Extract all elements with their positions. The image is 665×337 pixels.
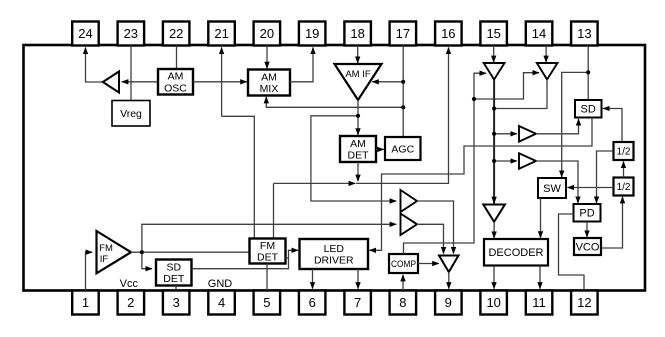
wire PD to VCO <box>586 222 588 238</box>
wire riser to amp A7 input <box>494 133 517 135</box>
amp A8 (points right) <box>519 153 536 169</box>
pin 16 <box>435 22 462 46</box>
block FM DET <box>250 239 286 264</box>
svg-text:MIX: MIX <box>260 83 279 95</box>
svg-text:SD: SD <box>581 104 596 116</box>
node AM IF tip branch junction <box>356 114 360 118</box>
wire amp A2 out to mute amp <box>417 201 454 254</box>
wire DECODER to pin 11 <box>539 266 541 289</box>
block Vreg <box>112 101 150 127</box>
wire pin 17 riser to AGC top <box>402 46 404 138</box>
svg-text:14: 14 <box>532 26 546 41</box>
wire mute amp to pin 9 <box>448 272 450 289</box>
node pin13 branch junction <box>586 70 590 74</box>
svg-text:AM: AM <box>168 71 184 83</box>
wire COMP to mute amp <box>418 263 439 265</box>
wire detector bus into junction arrow <box>274 182 356 184</box>
wire COMP branch to amp A6 input <box>474 73 539 99</box>
block SD DET <box>156 260 192 286</box>
block DECODER <box>484 239 548 266</box>
node COMP branch junction <box>472 97 476 101</box>
wire pin 12 to PD <box>559 214 585 291</box>
wire pin 23 to Vreg <box>130 46 132 101</box>
wire AM IF tip to AM DET <box>357 100 359 135</box>
wire FM DET to pin 5 <box>266 264 268 291</box>
svg-text:PD: PD <box>579 208 594 220</box>
svg-text:DET: DET <box>257 252 279 264</box>
svg-text:13: 13 <box>577 26 591 41</box>
wire main riser A5 down <box>493 80 495 204</box>
pin 2 <box>118 291 145 315</box>
svg-text:AM: AM <box>261 71 277 83</box>
pin 4 <box>208 291 235 315</box>
svg-text:FM: FM <box>260 240 275 252</box>
pin 10 <box>480 291 507 315</box>
svg-text:OSC: OSC <box>164 82 187 94</box>
wire amp A7 output to SD <box>536 119 579 134</box>
svg-text:7: 7 <box>354 295 361 310</box>
amp FM IF (points right) <box>97 231 132 273</box>
block AGC <box>385 137 421 160</box>
node riser/A6 junction <box>492 106 496 110</box>
wire pin 21 to FM DET top <box>222 116 255 238</box>
wire pin 22 to AM OSC <box>176 46 178 70</box>
block SD <box>575 100 602 118</box>
wire DECODER to pin 10 <box>493 266 495 289</box>
svg-text:8: 8 <box>399 295 406 310</box>
pin 12 <box>571 291 598 315</box>
amp A3 (points right) <box>401 214 418 236</box>
svg-text:AGC: AGC <box>391 143 414 155</box>
mute amp A9 (points down) <box>483 205 505 222</box>
pin 5 <box>254 291 281 315</box>
svg-text:Vcc: Vcc <box>120 278 139 290</box>
wire COMP output up to top amps <box>404 73 487 254</box>
node FM IF output junction <box>140 250 144 254</box>
wire VCO to divider B <box>601 197 623 248</box>
wire SD DET to pin 3 <box>175 286 177 291</box>
svg-text:2: 2 <box>127 295 134 310</box>
node riser/A8 junction <box>492 159 496 163</box>
wire AM IF branch to middle amp input <box>311 116 396 201</box>
svg-text:23: 23 <box>124 26 138 41</box>
pin 20 <box>254 22 281 46</box>
svg-text:18: 18 <box>350 26 364 41</box>
svg-text:15: 15 <box>486 26 500 41</box>
mute amp A4 (points down) <box>439 256 459 273</box>
svg-text:17: 17 <box>396 26 410 41</box>
svg-text:6: 6 <box>309 295 316 310</box>
wire FM DET output stub <box>286 257 289 259</box>
pin 23 <box>118 22 145 46</box>
wire divider to SD input <box>603 109 622 143</box>
wire SD DET output bus <box>192 250 299 268</box>
block AM MIX <box>248 70 290 96</box>
pin 1 <box>72 291 99 315</box>
svg-text:9: 9 <box>445 295 452 310</box>
svg-text:3: 3 <box>173 295 180 310</box>
wire pin 1 to FM IF input <box>86 252 93 290</box>
wire amp A3 out to mute amp <box>417 224 444 253</box>
svg-text:DET: DET <box>348 150 370 162</box>
wire amp A8 output to PD <box>536 161 578 203</box>
pin 9 <box>435 291 462 315</box>
wire pin 15 to amp A5 <box>493 46 495 63</box>
block AM DET <box>340 136 376 162</box>
pin 19 <box>299 22 326 46</box>
wire AM MIX to pin 19 <box>290 48 313 82</box>
block PD <box>574 204 601 222</box>
svg-text:IF: IF <box>100 254 109 265</box>
pin 11 <box>526 291 553 315</box>
svg-text:16: 16 <box>441 26 455 41</box>
wire AM DET output down to junction <box>357 162 359 181</box>
wire pin 13 branch to SW <box>562 72 589 177</box>
wire divider B to divider A <box>623 162 625 178</box>
wire LED DRIVER to pin 6 <box>312 269 314 289</box>
pin 22 <box>163 22 190 46</box>
svg-text:12: 12 <box>577 295 591 310</box>
pin 18 <box>344 22 371 46</box>
svg-text:SD: SD <box>167 261 182 273</box>
wire SD output to LED DRIVER <box>370 118 593 251</box>
wire pin 20 to AM MIX <box>266 46 268 69</box>
block VCO <box>574 238 601 255</box>
svg-text:4: 4 <box>218 295 225 310</box>
pin 7 <box>344 291 371 315</box>
svg-text:FM: FM <box>99 243 113 254</box>
wire detector bus to pin 16 <box>356 48 449 184</box>
svg-text:DET: DET <box>163 273 185 285</box>
node pin17/AM IF junction <box>401 80 405 84</box>
amp AM IF (points down) <box>335 64 382 100</box>
pin 17 <box>390 22 417 46</box>
pin 24 <box>72 22 99 46</box>
block LED DRIVER <box>300 239 369 269</box>
wire FM DET top up to detector bus <box>273 183 275 238</box>
svg-text:AM: AM <box>350 138 366 150</box>
svg-text:LED: LED <box>324 243 345 255</box>
amp A6 (points down) <box>537 63 558 80</box>
pin 8 <box>390 291 417 315</box>
pin 3 <box>163 291 190 315</box>
svg-text:20: 20 <box>260 26 274 41</box>
svg-text:DRIVER: DRIVER <box>314 255 354 267</box>
svg-text:5: 5 <box>263 295 270 310</box>
wire AM OSC to AM MIX <box>193 81 247 83</box>
svg-text:21: 21 <box>214 26 228 41</box>
svg-text:11: 11 <box>532 295 546 310</box>
wire amp A6 output to riser <box>494 80 547 109</box>
wire FM IF output to FM DET <box>131 251 250 253</box>
wire A9 to DECODER <box>493 222 495 238</box>
wire divider A output to PD <box>597 151 614 203</box>
pin 13 <box>571 22 598 46</box>
svg-text:COMP: COMP <box>391 259 416 270</box>
block AM OSC <box>158 69 193 95</box>
wire pin 13 riser to SD top <box>587 46 589 101</box>
pin 14 <box>526 22 553 46</box>
amp A2 (points right) <box>401 190 418 212</box>
wire LED DRIVER to pin 7 <box>357 269 359 289</box>
pin 15 <box>480 22 507 46</box>
svg-text:19: 19 <box>305 26 319 41</box>
svg-text:1/2: 1/2 <box>617 182 631 193</box>
wire FM IF output up to middle amp 2 <box>142 224 396 252</box>
svg-text:10: 10 <box>486 295 500 310</box>
pin 21 <box>208 22 235 46</box>
svg-text:VCO: VCO <box>576 242 600 254</box>
wire AM OSC to buffer A1 input <box>122 81 158 83</box>
block divider 1/2 A <box>614 142 634 160</box>
wire SW to DECODER <box>540 198 542 238</box>
node riser/A7 junction <box>492 132 496 136</box>
svg-text:1: 1 <box>82 295 89 310</box>
amp A5 (points down) <box>484 63 505 80</box>
svg-text:24: 24 <box>78 26 92 41</box>
wire pin 18 to AM IF <box>357 46 359 64</box>
wire junction to AM MIX bottom <box>266 97 403 108</box>
wire pin 14 to amp A6 <box>545 46 547 63</box>
block SW <box>538 178 566 198</box>
wire junction to AM IF right input <box>372 81 403 83</box>
svg-text:1/2: 1/2 <box>617 147 631 158</box>
wire FM IF output to SD DET <box>142 252 152 269</box>
amp A7 (points right) <box>519 126 536 142</box>
svg-text:AM IF: AM IF <box>345 69 371 80</box>
wire pin 8 to COMP <box>402 275 404 291</box>
svg-text:Vreg: Vreg <box>120 108 142 120</box>
svg-text:22: 22 <box>169 26 183 41</box>
svg-text:SW: SW <box>543 183 561 195</box>
wire buffer output to pin 24 <box>86 48 104 83</box>
svg-text:DECODER: DECODER <box>488 247 543 259</box>
block COMP <box>389 254 418 273</box>
block divider 1/2 B <box>614 178 634 196</box>
svg-text:GND: GND <box>208 278 233 290</box>
wire riser to amp A8 input <box>494 160 517 162</box>
wire divider B output to SW <box>568 187 614 189</box>
IC body outline U1 <box>24 45 646 291</box>
wire AM DET to AGC <box>376 148 384 150</box>
pin 6 <box>299 291 326 315</box>
wire pin 21 up-arrow <box>221 48 223 117</box>
node pin17/AM MIX junction <box>401 105 405 109</box>
buffer amp A1 (AM OSC buffer, points left) <box>103 72 119 93</box>
